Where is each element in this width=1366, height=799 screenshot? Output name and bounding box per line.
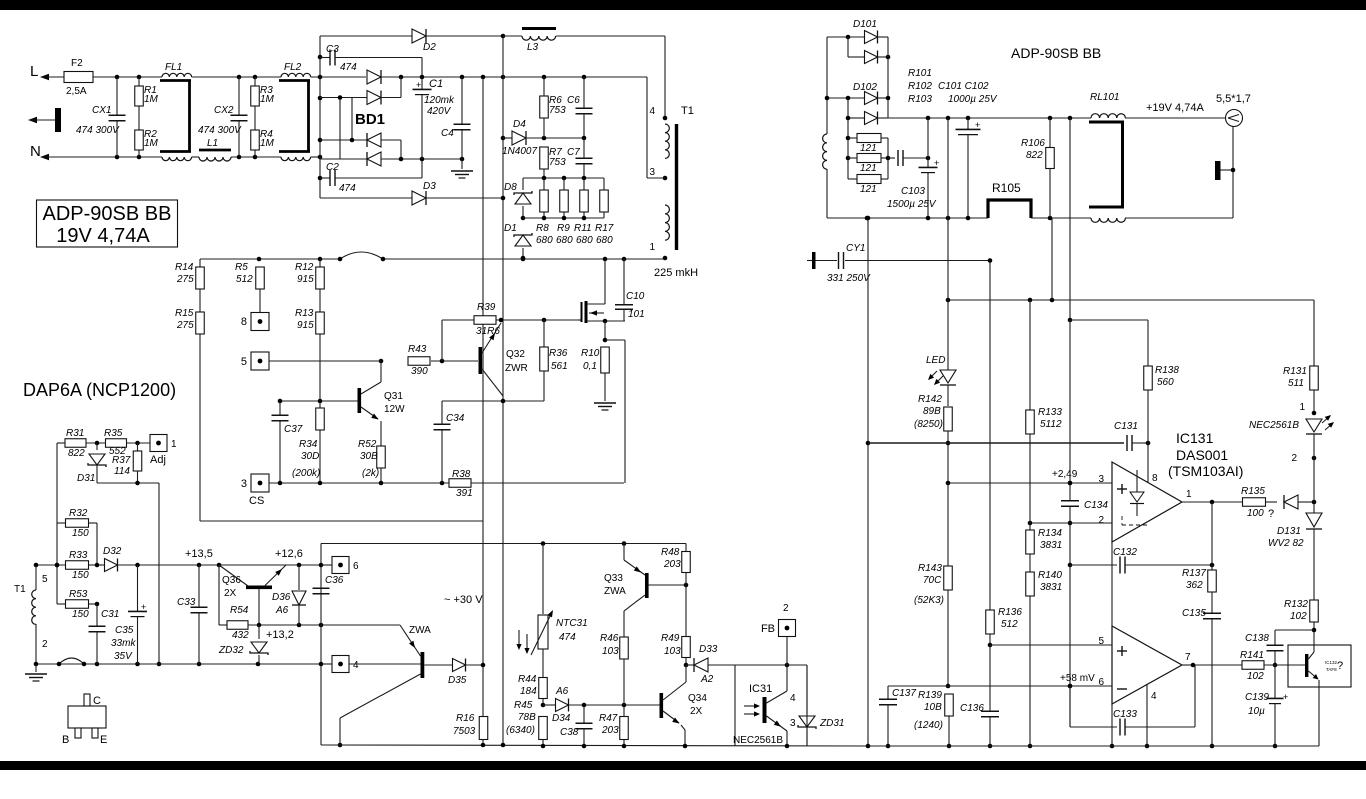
- svg-text:+13,5: +13,5: [185, 548, 213, 560]
- wire output return rail: [827, 217, 988, 219]
- svg-text:7503: 7503: [453, 726, 476, 737]
- wire doubler vertical x=503: [502, 36, 504, 745]
- svg-text:R106: R106: [1021, 138, 1045, 149]
- wire R31 riser: [56, 443, 58, 604]
- svg-text:6: 6: [1098, 677, 1104, 688]
- resistor R143: [947, 483, 949, 566]
- svg-text:R13: R13: [295, 308, 314, 319]
- svg-text:R45: R45: [514, 700, 533, 711]
- svg-text:L: L: [30, 63, 38, 80]
- svg-text:C137: C137: [892, 688, 916, 699]
- svg-text:C131: C131: [1114, 421, 1138, 432]
- svg-text:1M: 1M: [260, 138, 275, 149]
- resistor R131: [1313, 300, 1315, 366]
- svg-text:R38: R38: [452, 469, 471, 480]
- svg-text:T1: T1: [14, 584, 26, 595]
- wire B+ rail to transformer: [503, 76, 647, 78]
- pin 3 box: [251, 474, 269, 492]
- svg-text:474: 474: [339, 183, 356, 194]
- BD1 diode row2: [367, 91, 381, 105]
- svg-text:203: 203: [601, 725, 619, 736]
- svg-text:Adj: Adj: [150, 454, 166, 466]
- svg-text:R140: R140: [1038, 570, 1062, 581]
- svg-text:ZWA: ZWA: [409, 625, 431, 636]
- wire primary bottom rail: [321, 745, 868, 746]
- wire aux bottom rail: [36, 663, 321, 665]
- resistor R48: [685, 544, 687, 553]
- svg-text:R36: R36: [549, 348, 568, 359]
- svg-text:R34: R34: [299, 439, 318, 450]
- capacitor C135: [1211, 592, 1213, 613]
- svg-text:R103: R103: [908, 94, 932, 105]
- svg-text:Q32: Q32: [506, 349, 525, 360]
- svg-text:A6: A6: [275, 605, 289, 616]
- wire C3 riser to B+ rail: [421, 58, 423, 78]
- svg-text:19V 4,74A: 19V 4,74A: [56, 225, 150, 247]
- wire N line: [42, 156, 162, 158]
- svg-text:(TSM103AI): (TSM103AI): [1168, 463, 1243, 479]
- svg-text:1: 1: [1299, 402, 1305, 413]
- svg-text:33mk: 33mk: [111, 638, 136, 649]
- svg-text:R142: R142: [918, 394, 942, 405]
- svg-text:+: +: [416, 80, 421, 90]
- resistor R138: [1147, 320, 1149, 366]
- svg-text:432: 432: [232, 630, 249, 641]
- svg-text:114: 114: [114, 466, 130, 477]
- transistor package outline: [68, 706, 106, 728]
- svg-text:1500µ 25V: 1500µ 25V: [887, 199, 937, 210]
- svg-text:680: 680: [576, 235, 593, 246]
- svg-text:CX1: CX1: [92, 105, 111, 116]
- MOSFET drain wire: [587, 303, 605, 305]
- svg-text:T1: T1: [681, 105, 694, 117]
- svg-text:D2: D2: [423, 42, 436, 53]
- svg-text:70C: 70C: [923, 575, 942, 586]
- svg-text:89B: 89B: [923, 406, 941, 417]
- svg-text:BD1: BD1: [355, 111, 385, 128]
- resistor R141: [1193, 664, 1243, 666]
- resistor R10: [601, 347, 610, 373]
- inductor L3: [522, 27, 556, 30]
- op-amp IC131b: [1112, 626, 1182, 704]
- resistor R52: [377, 446, 386, 468]
- wire op-amp pin8: [1147, 443, 1149, 483]
- resistor R12: [319, 259, 321, 267]
- connector center pin: [1215, 161, 1221, 180]
- svg-text:+2,49: +2,49: [1052, 469, 1078, 480]
- capacitor C138: [1275, 629, 1314, 631]
- svg-text:512: 512: [1001, 619, 1018, 630]
- svg-text:1N4007: 1N4007: [502, 146, 537, 157]
- svg-text:+: +: [141, 602, 146, 612]
- svg-text:R43: R43: [408, 344, 427, 355]
- svg-text:822: 822: [68, 448, 85, 459]
- svg-text:NEC2561B: NEC2561B: [733, 735, 783, 746]
- capacitor CX1: [116, 77, 118, 115]
- wire left HV riser x=320: [319, 36, 321, 198]
- diode D3: [412, 191, 426, 205]
- capacitor C31: [96, 604, 98, 626]
- svg-text:C132: C132: [1113, 547, 1137, 558]
- wire op-amp2 pin4: [1146, 685, 1148, 746]
- svg-text:2,5A: 2,5A: [66, 86, 87, 97]
- svg-text:R33: R33: [69, 550, 88, 561]
- wire FL1 to L1: [192, 156, 199, 158]
- svg-text:R32: R32: [69, 508, 88, 519]
- capacitor C103: [927, 118, 929, 167]
- svg-text:5,5*1,7: 5,5*1,7: [1216, 93, 1251, 105]
- fuse F2: [64, 72, 93, 83]
- svg-text:275: 275: [176, 320, 194, 331]
- resistor R13: [319, 289, 321, 312]
- svg-text:R16: R16: [456, 713, 475, 724]
- resistor R49: [685, 585, 687, 637]
- bridge rectifier BD1 outline: [339, 97, 341, 159]
- svg-text:D101: D101: [853, 19, 877, 30]
- wire emitter node line: [442, 400, 544, 402]
- wire L line to FL1: [93, 76, 162, 78]
- svg-text:C10: C10: [626, 291, 645, 302]
- svg-text:753: 753: [549, 105, 566, 116]
- diode D131 lower: [1313, 502, 1315, 513]
- svg-text:+12,6: +12,6: [275, 548, 303, 560]
- svg-text:5: 5: [241, 356, 247, 368]
- svg-text:R143: R143: [918, 563, 942, 574]
- thermistor NTC31: [542, 544, 544, 615]
- pin 5 box: [251, 352, 269, 370]
- svg-text:225 mkH: 225 mkH: [654, 267, 698, 279]
- resistor R16: [479, 717, 488, 740]
- MOSFET body arrow: [589, 312, 604, 314]
- svg-text:362: 362: [1186, 580, 1203, 591]
- svg-text:L1: L1: [207, 138, 218, 149]
- svg-text:(6340): (6340): [506, 725, 535, 736]
- svg-text:ZWR: ZWR: [505, 363, 528, 374]
- resistor R39: [441, 320, 443, 361]
- svg-text:150: 150: [72, 528, 89, 539]
- svg-text:3: 3: [241, 478, 247, 490]
- diode D36: [298, 565, 300, 590]
- svg-text:4: 4: [353, 660, 359, 671]
- svg-text:ADP-90SB BB: ADP-90SB BB: [43, 203, 172, 225]
- svg-text:1: 1: [1186, 489, 1192, 500]
- resistor R9: [563, 178, 565, 190]
- diode D35: [425, 664, 453, 666]
- resistor R133: [1029, 300, 1031, 410]
- svg-text:C133: C133: [1113, 709, 1137, 720]
- svg-text:WV2 82: WV2 82: [1268, 538, 1304, 549]
- transformer secondary winding: [826, 37, 828, 134]
- wire D31/R37 bottom bus: [97, 482, 159, 484]
- svg-text:R44: R44: [518, 674, 537, 685]
- diode D33: [686, 664, 694, 666]
- pin 4 box: [321, 663, 332, 665]
- wire C2 riser to C1 node: [421, 159, 423, 178]
- transistor Q33: [623, 544, 625, 561]
- pin 8 box: [251, 313, 269, 331]
- svg-text:275: 275: [176, 274, 194, 285]
- svg-text:915: 915: [297, 320, 314, 331]
- wire x1070 sense line: [1069, 118, 1071, 320]
- svg-text:R102: R102: [908, 81, 932, 92]
- svg-text:35V: 35V: [114, 651, 133, 662]
- svg-text:103: 103: [602, 646, 619, 657]
- diode D32: [105, 559, 118, 572]
- svg-text:391: 391: [456, 488, 473, 499]
- wire T1 pin4 drop: [664, 36, 666, 118]
- svg-text:(200k): (200k): [292, 468, 320, 479]
- svg-text:C134: C134: [1084, 500, 1108, 511]
- diode D34: [543, 704, 556, 706]
- svg-text:4: 4: [1151, 691, 1157, 702]
- capacitor C34: [441, 401, 443, 424]
- svg-text:R5: R5: [235, 262, 248, 273]
- svg-text:R11: R11: [574, 223, 592, 234]
- svg-text:R48: R48: [661, 547, 680, 558]
- page border bar top: [0, 0, 1366, 10]
- resistor R15: [199, 289, 201, 312]
- svg-text:C7: C7: [567, 147, 580, 158]
- wire pin5 line: [269, 360, 381, 362]
- svg-text:8: 8: [1152, 473, 1158, 484]
- svg-text:CX2: CX2: [214, 105, 234, 116]
- pin Adj box: [150, 435, 167, 452]
- resistor R47: [620, 717, 629, 740]
- internal reference diode: [1136, 470, 1138, 492]
- svg-text:2: 2: [1098, 515, 1104, 526]
- svg-text:0,1: 0,1: [583, 361, 597, 372]
- wire feedback top line: [948, 299, 1314, 301]
- svg-text:D131: D131: [1277, 526, 1301, 537]
- svg-text:100: 100: [1247, 508, 1264, 519]
- svg-text:1M: 1M: [260, 94, 275, 105]
- pin FB box: [779, 620, 796, 637]
- wire L1 to FL2 bottom: [231, 156, 281, 158]
- svg-text:R53: R53: [69, 589, 88, 600]
- resistor R8: [543, 178, 545, 190]
- wire pin3 to rail drop: [646, 77, 648, 178]
- capacitor C3: [320, 57, 330, 59]
- resistor R6: [543, 77, 545, 96]
- svg-text:D36: D36: [272, 592, 291, 603]
- BD1 diode row4: [367, 152, 381, 166]
- svg-text:3831: 3831: [1040, 540, 1062, 551]
- svg-text:FB: FB: [761, 623, 775, 635]
- capacitor C133 feedback: [1069, 686, 1071, 727]
- diode D131: [1283, 495, 1285, 509]
- capacitor C1 (bulk): [421, 77, 423, 89]
- svg-text:3831: 3831: [1040, 582, 1062, 593]
- svg-text:?: ?: [1337, 660, 1343, 672]
- svg-text:+: +: [934, 158, 939, 168]
- wire left edge down to box bottom: [199, 334, 201, 521]
- svg-text:120mk: 120mk: [424, 95, 455, 106]
- svg-text:R138: R138: [1155, 365, 1179, 376]
- svg-text:~ +30 V: ~ +30 V: [444, 594, 483, 606]
- svg-text:A6: A6: [555, 686, 569, 697]
- resistor R4: [254, 106, 256, 130]
- svg-text:5: 5: [1098, 636, 1104, 647]
- svg-text:ZWA: ZWA: [604, 586, 626, 597]
- capacitor C38: [583, 705, 585, 723]
- svg-text:150: 150: [72, 609, 89, 620]
- zener D8: [522, 178, 524, 190]
- wire R13 to base node: [319, 334, 321, 401]
- svg-text:474: 474: [340, 62, 357, 73]
- svg-text:420V: 420V: [427, 106, 452, 117]
- resistor R142: [947, 385, 949, 406]
- svg-text:Q34: Q34: [688, 693, 707, 704]
- transistor Q31: [358, 388, 361, 390]
- svg-text:D31: D31: [77, 473, 95, 484]
- svg-text:IC31: IC31: [749, 683, 772, 695]
- wire clamp bottom bus: [523, 217, 604, 219]
- capacitor CX2: [238, 77, 240, 115]
- optocoupler IC31 box: [734, 665, 736, 746]
- zener D31: [96, 443, 98, 450]
- svg-text:5112: 5112: [1040, 419, 1062, 430]
- svg-text:121: 121: [860, 163, 877, 174]
- capacitor C139: [1274, 665, 1276, 698]
- resistor R37: [137, 443, 139, 451]
- svg-text:C37: C37: [284, 424, 303, 435]
- svg-text:30D: 30D: [301, 451, 319, 462]
- svg-text:1: 1: [171, 439, 177, 450]
- op-amp IC131a: [1112, 462, 1182, 542]
- svg-text:3: 3: [649, 167, 655, 178]
- svg-text:C103: C103: [901, 186, 925, 197]
- wire source sense to R38: [605, 339, 625, 341]
- svg-text:753: 753: [549, 157, 566, 168]
- wire CS line: [269, 482, 449, 484]
- svg-text:D34: D34: [552, 713, 571, 724]
- transformer T1 core: [675, 124, 678, 250]
- wire output rail +: [888, 117, 1091, 119]
- wire box bottom edge: [200, 520, 483, 522]
- resistor R34: [319, 401, 321, 408]
- capacitor C4: [461, 77, 463, 124]
- svg-text:R137: R137: [1182, 568, 1206, 579]
- capacitor C101/C102 bulk: [967, 118, 969, 129]
- svg-text:1: 1: [649, 242, 655, 253]
- svg-text:C34: C34: [446, 413, 465, 424]
- wire drain rail: [200, 258, 340, 260]
- svg-text:R15: R15: [175, 308, 194, 319]
- svg-text:D32: D32: [103, 546, 122, 557]
- capacitor CY1: [812, 252, 816, 269]
- svg-text:C2: C2: [326, 162, 339, 173]
- wire secondary ground drop x=868: [867, 218, 869, 746]
- transformer T1 primary winding 3-1: [665, 205, 669, 240]
- capacitor C137: [887, 686, 889, 699]
- svg-text:2: 2: [42, 639, 48, 650]
- svg-text:560: 560: [1157, 377, 1174, 388]
- svg-text:DAS001: DAS001: [1176, 447, 1228, 463]
- svg-text:R10: R10: [581, 348, 600, 359]
- wire secondary feed line: [321, 543, 686, 545]
- svg-text:R14: R14: [175, 262, 194, 273]
- svg-text:331 250V: 331 250V: [827, 273, 871, 284]
- svg-text:C136: C136: [960, 703, 984, 714]
- resistor R45: [539, 717, 548, 740]
- resistor R134: [1029, 523, 1031, 530]
- transistor Q36: [246, 586, 272, 590]
- svg-text:R136: R136: [998, 607, 1022, 618]
- svg-text:ADP-90SB BB: ADP-90SB BB: [1011, 45, 1101, 61]
- svg-text:R134: R134: [1038, 528, 1062, 539]
- resistor R36: [543, 320, 545, 347]
- BD1 diode row3: [367, 133, 381, 147]
- svg-text:474 300V: 474 300V: [76, 125, 120, 136]
- capacitor C37: [279, 401, 281, 415]
- svg-text:+19V 4,74A: +19V 4,74A: [1146, 102, 1204, 114]
- wire FL2 to bridge node: [311, 76, 366, 78]
- svg-text:4: 4: [649, 106, 655, 117]
- secondary box left edge: [320, 544, 322, 746]
- wire C101 return to fb line: [1051, 218, 1053, 300]
- svg-text:D1: D1: [504, 223, 517, 234]
- transistor ZWA: [349, 663, 421, 665]
- pin 6 box: [321, 564, 332, 566]
- svg-text:R132: R132: [1284, 599, 1308, 610]
- BD1 diode top (row1): [367, 70, 381, 84]
- svg-text:102: 102: [1290, 611, 1307, 622]
- svg-text:680: 680: [536, 235, 553, 246]
- wire FL1 to FL2 top: [192, 76, 281, 78]
- resistor R35: [106, 439, 127, 448]
- capacitor C35: [137, 565, 139, 611]
- svg-text:R139: R139: [918, 690, 942, 701]
- svg-text:R131: R131: [1283, 366, 1307, 377]
- svg-text:C38: C38: [560, 727, 579, 738]
- svg-text:Q33: Q33: [604, 573, 623, 584]
- MOSFET Q30 gate bar: [578, 319, 581, 321]
- resistor R1: [138, 77, 140, 86]
- svg-text:150: 150: [72, 570, 89, 581]
- svg-text:C135: C135: [1182, 608, 1206, 619]
- svg-text:R37: R37: [112, 455, 131, 466]
- capacitor C136: [989, 645, 991, 711]
- wire op-amp1 output: [1182, 501, 1243, 503]
- svg-text:6: 6: [353, 561, 359, 572]
- svg-text:R46: R46: [600, 633, 619, 644]
- resistor R17: [603, 178, 605, 190]
- svg-text:915: 915: [297, 274, 314, 285]
- resistor R137: [1211, 502, 1213, 570]
- resistor R53: [57, 603, 66, 605]
- earth pin symbol: [28, 117, 37, 123]
- resistor R139: [945, 694, 954, 716]
- svg-text:F2: F2: [71, 58, 83, 69]
- resistor R11: [583, 178, 585, 190]
- resistor R43: [269, 360, 381, 362]
- svg-text:512: 512: [236, 274, 253, 285]
- svg-text:7: 7: [1185, 652, 1191, 663]
- ground (source): [594, 402, 616, 404]
- svg-text:B: B: [62, 734, 69, 746]
- svg-text:5: 5: [42, 574, 48, 585]
- svg-text:R47: R47: [599, 713, 618, 724]
- svg-text:D8: D8: [504, 182, 517, 193]
- wire emitter to rail: [1318, 687, 1320, 746]
- svg-text:C35: C35: [115, 625, 134, 636]
- wire op-amp2 output: [1182, 664, 1193, 666]
- wire op-amp pin2 line: [1030, 522, 1112, 524]
- resistor R7: [543, 118, 545, 138]
- svg-text:R35: R35: [104, 428, 123, 439]
- svg-text:+13,2: +13,2: [266, 629, 294, 641]
- svg-text:?: ?: [1268, 508, 1274, 520]
